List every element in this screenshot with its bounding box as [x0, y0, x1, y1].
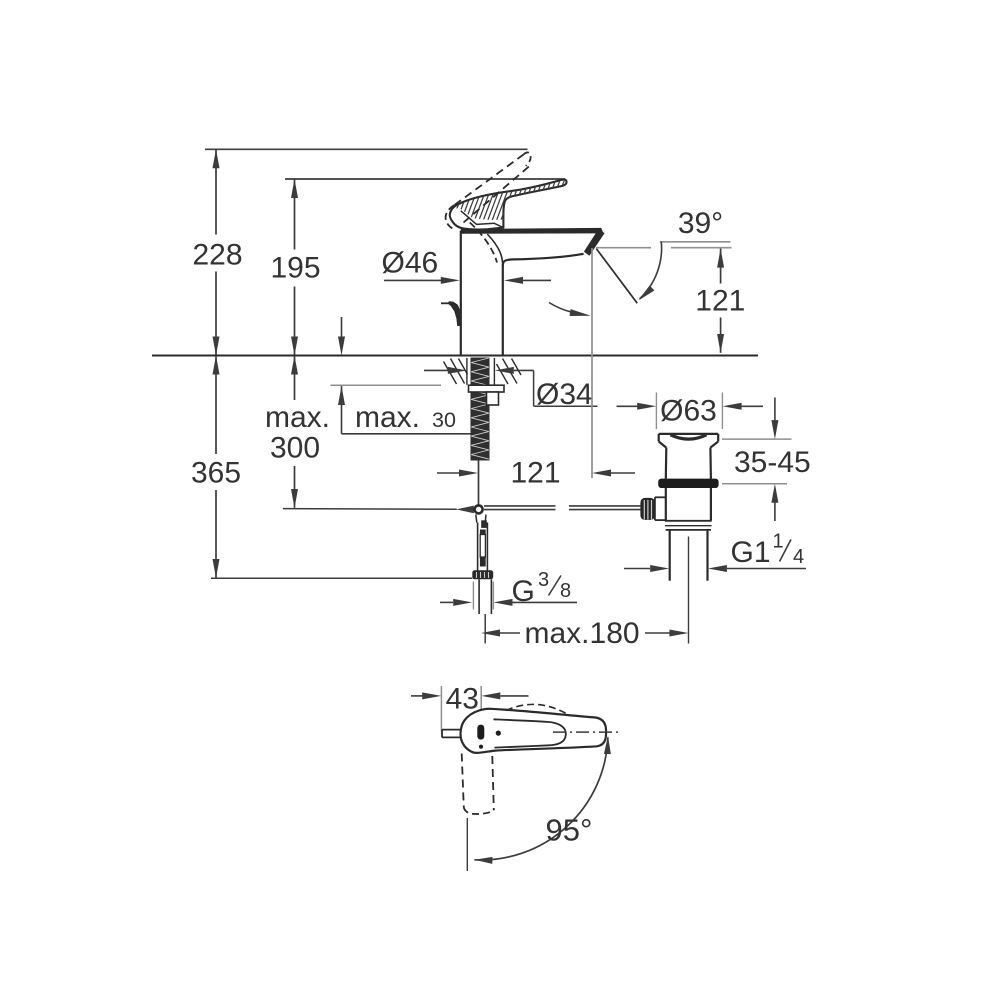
svg-text:228: 228: [192, 239, 242, 272]
svg-text:Ø63: Ø63: [660, 395, 717, 428]
svg-text:Ø46: Ø46: [382, 247, 439, 280]
svg-text:max.180: max.180: [525, 617, 640, 650]
svg-text:3: 3: [538, 569, 549, 591]
svg-text:G: G: [512, 575, 535, 608]
svg-text:Ø34: Ø34: [536, 378, 593, 411]
svg-text:4: 4: [793, 546, 804, 568]
svg-text:1: 1: [773, 531, 784, 553]
svg-text:365: 365: [191, 457, 241, 490]
svg-text:121: 121: [510, 457, 560, 490]
svg-text:8: 8: [560, 580, 571, 602]
svg-text:G1: G1: [731, 536, 771, 569]
svg-text:39°: 39°: [678, 207, 723, 240]
svg-text:300: 300: [270, 432, 320, 465]
svg-text:35-45: 35-45: [734, 446, 811, 479]
svg-text:43: 43: [446, 683, 479, 716]
svg-text:95°: 95°: [546, 813, 593, 848]
svg-text:max.: max.: [265, 401, 330, 434]
svg-text:121: 121: [695, 285, 745, 318]
svg-text:max.: max.: [355, 401, 420, 434]
svg-text:195: 195: [270, 252, 320, 285]
svg-text:30: 30: [432, 408, 456, 432]
